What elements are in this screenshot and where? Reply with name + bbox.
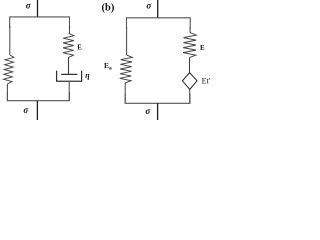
wire left lower (a)	[6, 84, 8, 101]
node sigma bottom lead (a)	[36, 101, 38, 120]
wire left upper (b)	[126, 27, 128, 55]
wire left lower (b)	[124, 83, 126, 103]
wire top horizontal (b)	[127, 18, 191, 29]
wire right upper (b)	[189, 27, 191, 33]
spring left branch (a)	[4, 55, 14, 84]
element diamond Et' (b)	[182, 73, 197, 90]
dashpot cylinder (a)	[57, 71, 82, 82]
svg-text:Et′: Et′	[202, 77, 211, 86]
spring Ea (b)	[120, 55, 133, 83]
svg-text:E: E	[77, 44, 82, 51]
svg-text:η: η	[85, 71, 90, 80]
spring E (b)	[183, 33, 196, 58]
svg-text:σ: σ	[145, 106, 151, 116]
wire below diamond (b)	[189, 89, 191, 103]
wire left upper (a)	[9, 26, 11, 55]
svg-text:σ: σ	[23, 105, 29, 115]
spring E (a)	[63, 33, 74, 57]
svg-text:σ: σ	[146, 0, 152, 10]
wire bottom horizontal (a)	[7, 92, 69, 101]
wire spring to diamond (b)	[189, 58, 191, 73]
wire right upper (a)	[69, 26, 71, 33]
svg-text:σ: σ	[26, 1, 32, 11]
wire piston rod (a)	[68, 58, 70, 75]
wire below dashpot (a)	[68, 81, 70, 101]
svg-text:(b): (b)	[102, 3, 115, 14]
node sigma top lead (a)	[37, 0, 39, 17]
node sigma bottom lead (b)	[157, 103, 159, 120]
dashpot piston plate (a)	[61, 73, 77, 75]
node sigma top lead (b)	[157, 0, 159, 18]
wire top horizontal (a)	[10, 17, 70, 28]
svg-text:Ea: Ea	[104, 61, 112, 71]
wire bottom horizontal (b)	[125, 94, 190, 103]
svg-text:E: E	[200, 44, 205, 52]
